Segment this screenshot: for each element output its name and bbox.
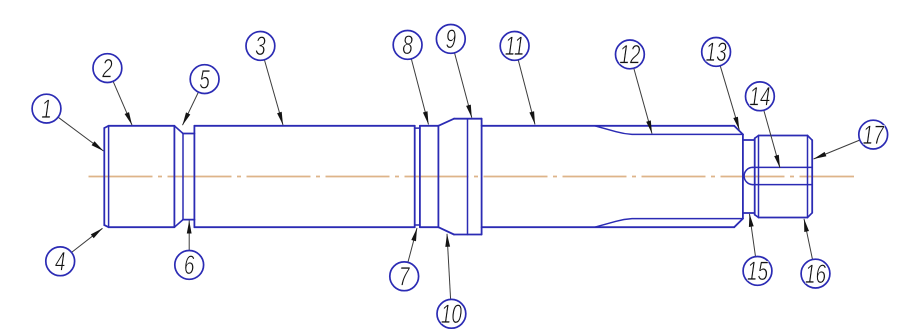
groove 2 floor bottom (part 7) [415,224,420,226]
balloon 6 (callout circle) [175,251,204,280]
left end top chamfer (part 2/4) [104,126,108,128]
arrowhead 2 [125,112,132,125]
segment D bottom outline [482,226,735,228]
arrowhead 14 [774,155,780,168]
leader line for balloon 1 [58,117,103,151]
svg-text:12: 12 [619,39,640,69]
collar internal edge line [467,119,469,235]
balloon 17 (callout circle) [859,120,888,149]
slot bottom line [753,184,813,186]
groove 2 left wall [414,126,416,227]
balloon 1 (callout circle) [32,94,61,123]
svg-text:3: 3 [255,31,266,61]
balloon 15 (callout circle) [743,257,772,286]
segment D top right chamfer (part 13) [734,126,743,135]
leader line for balloon 3 [264,60,283,125]
svg-text:5: 5 [199,64,210,94]
thread right end face (part 17) [811,140,813,213]
balloon 13 (callout circle) [702,38,731,67]
leader line for balloon 4 [72,228,103,252]
balloon 3 (callout circle) [246,32,275,61]
arrowhead 12 [646,120,652,133]
leader line for balloon 8 [411,59,428,125]
arrowhead 15 [749,214,754,227]
groove 1 right wall (segment C left face) [193,126,195,227]
leader line for balloon 5 [183,92,199,125]
svg-text:17: 17 [863,120,885,150]
arrowhead 4 [91,228,103,238]
segment A top outline [109,125,175,127]
leader line for balloon 6 [188,221,190,251]
arrowhead 3 [277,112,283,125]
groove 1 bottom entry chamfer [174,220,183,228]
arrowhead 6 [187,221,192,234]
balloon 11 (callout circle) [500,32,529,61]
svg-text:1: 1 [41,94,52,124]
leader line for balloon 9 [455,53,472,118]
balloon 12 (callout circle) [616,40,645,69]
leader line for balloon 16 [804,219,813,260]
arrowhead 8 [423,111,429,124]
flat edge line bottom [595,219,743,228]
svg-text:2: 2 [101,53,113,83]
leader line for balloon 17 [814,140,860,159]
svg-text:7: 7 [399,261,411,291]
balloon 5 (callout circle) [190,65,219,94]
segment D top outline (part 11) [482,125,735,127]
cone bottom silhouette [438,227,454,234]
leader line for balloon 14 [764,110,780,168]
balloon 10 (callout circle) [437,299,466,328]
leader line for balloon 2 [113,81,132,125]
groove 2 floor top (part 8) [415,127,420,129]
balloon 7 (callout circle) [390,262,419,291]
arrowhead 17 [814,152,827,159]
arrowhead 13 [733,117,739,130]
thread section left face [754,138,756,214]
svg-text:15: 15 [747,256,768,286]
collar right face [481,119,483,235]
balloon 8 (callout circle) [393,31,422,60]
leader line for balloon 11 [518,60,535,125]
groove 1 chamfer edge line [182,134,184,220]
groove 2 right wall [419,126,421,227]
svg-text:4: 4 [55,246,66,276]
svg-text:10: 10 [441,299,462,329]
svg-text:11: 11 [505,31,525,61]
left end bottom chamfer [104,225,108,227]
flat edge line top (part 12) [595,126,743,135]
band segment top outline [420,125,439,127]
leader line for balloon 15 [750,214,756,257]
thread left top chamfer [755,136,759,139]
segment A bottom outline [109,226,175,228]
leader line for balloon 12 [634,68,652,133]
arrowhead 5 [183,112,191,125]
left chamfer edge line [108,126,110,227]
collar bottom outline [454,234,482,236]
svg-text:14: 14 [749,81,770,111]
segment D bottom right chamfer [734,219,743,228]
thread right chamfer edge line (part 16) [807,136,809,218]
svg-text:6: 6 [184,250,195,280]
segment D right face [742,134,744,218]
arrowhead 16 [804,219,809,232]
arrowhead 9 [466,105,472,118]
arrowhead 1 [92,141,104,151]
segment C top outline (part 3) [194,125,414,127]
balloon 14 (callout circle) [746,82,775,111]
thread top outline [759,135,808,137]
neck floor top [743,139,755,141]
neck floor bottom (part 15) [743,212,755,214]
groove 1 left wall (segment A right face) [173,126,175,227]
thread left bottom chamfer [755,215,759,218]
balloon 2 (callout circle) [93,54,122,83]
balloon 9 (callout circle) [436,25,465,54]
segment C bottom outline [194,226,414,228]
leader line for balloon 7 [408,228,417,262]
slot rounded end (part 14) [744,167,753,184]
groove 1 top entry chamfer (part 5) [174,126,183,134]
svg-text:16: 16 [805,259,826,289]
slot top line [753,166,813,168]
arrowhead 10 [445,234,450,247]
arrowhead 7 [411,228,417,241]
svg-text:9: 9 [445,24,456,54]
svg-text:13: 13 [705,37,726,67]
leader line for balloon 10 [447,234,451,300]
balloon 16 (callout circle) [801,259,830,288]
thread bottom outline [759,217,808,219]
leader line for balloon 13 [720,66,739,130]
band segment bottom outline [420,226,439,228]
groove 1 floor bottom [183,219,194,221]
thread left chamfer edge line [758,136,760,218]
shaft left end face (part 1) [103,128,105,225]
arrowhead 11 [529,111,535,124]
cone small-end edge line [437,126,439,227]
balloon 4 (callout circle) [46,247,75,276]
centerline (axis, dash-dot) [89,176,855,178]
groove 1 floor top (part 6) [183,133,194,135]
svg-text:8: 8 [402,30,413,60]
collar top outline (part 9) [454,118,482,120]
thread right top chamfer [808,136,813,141]
thread right bottom chamfer [808,213,813,218]
cone top silhouette (part 10 area) [438,119,454,126]
